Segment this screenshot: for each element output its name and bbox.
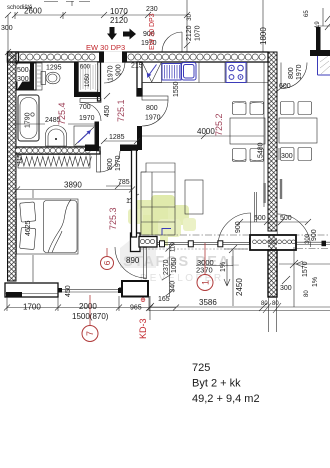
circle 6 [106, 248, 108, 256]
svg-text:500: 500 [254, 215, 266, 222]
central hatched wall [268, 52, 277, 231]
watermark house [120, 234, 156, 268]
svg-text:900: 900 [116, 64, 123, 76]
dim 4000 line [142, 133, 264, 139]
dining table [230, 118, 265, 144]
svg-text:1970: 1970 [79, 115, 95, 122]
svg-text:600: 600 [279, 83, 291, 90]
wall left end x-box [8, 52, 19, 62]
neighbor blue counter corner [318, 56, 330, 75]
svg-text:725.1: 725.1 [116, 99, 126, 122]
circle 7 [89, 295, 91, 325]
bathroom door [80, 99, 101, 103]
svg-text:900: 900 [235, 221, 242, 233]
hall dim 1285 [101, 138, 140, 144]
bedroom door leaf + swing [97, 151, 101, 172]
svg-text:965: 965 [130, 305, 142, 312]
living door leaf + swing [142, 96, 168, 100]
svg-text:80: 80 [304, 290, 310, 297]
column tails [269, 297, 277, 332]
svg-text:800: 800 [146, 105, 158, 112]
bedroom SE wall block [122, 281, 148, 297]
svg-text:600: 600 [80, 65, 91, 71]
svg-text:1790: 1790 [25, 112, 32, 128]
svg-text:725: 725 [192, 362, 210, 374]
shower [74, 126, 95, 146]
dim 4625 [32, 190, 34, 282]
dash-dot boundary living bottom [130, 234, 330, 236]
neighbor table [279, 118, 317, 143]
dim 2600 line [12, 12, 190, 19]
closet L-wall [74, 62, 101, 97]
ref line + circle 1 [204, 243, 206, 275]
hall-bedroom wall [85, 145, 99, 152]
chairs [233, 102, 264, 162]
svg-text:1050: 1050 [85, 73, 91, 87]
svg-text:6: 6 [102, 260, 112, 265]
svg-text:1550: 1550 [173, 81, 180, 97]
dim 3890 [14, 187, 135, 193]
svg-text:725.4: 725.4 [57, 102, 67, 125]
svg-text:2120: 2120 [110, 16, 128, 25]
svg-text:19: 19 [315, 21, 321, 28]
svg-text:1285: 1285 [109, 134, 125, 141]
svg-text:230: 230 [146, 6, 158, 13]
neighbor door swing top-right [281, 63, 307, 89]
top wall with insulation [8, 51, 269, 62]
svg-text:2120: 2120 [186, 25, 193, 41]
washbasin [46, 126, 67, 147]
svg-text:1295: 1295 [46, 65, 62, 72]
svg-text:KD-3: KD-3 [138, 318, 148, 339]
svg-text:4000: 4000 [197, 127, 215, 136]
svg-text:725.3: 725.3 [108, 207, 118, 230]
svg-text:300: 300 [280, 285, 292, 292]
svg-text:450: 450 [104, 105, 111, 117]
hall-kitchen wall upper [137, 62, 142, 96]
svg-text:1%: 1% [220, 262, 227, 272]
entrance door swing [104, 63, 125, 84]
svg-text:500: 500 [17, 67, 29, 74]
bed [17, 199, 79, 254]
svg-text:1970: 1970 [108, 65, 115, 81]
svg-text:2450: 2450 [235, 278, 244, 296]
svg-text:1500(870): 1500(870) [72, 312, 109, 321]
corridor door arc [162, 32, 182, 52]
watermark tree [128, 195, 196, 246]
glazing lines [157, 242, 251, 244]
svg-text:785: 785 [118, 179, 130, 186]
bedroom window [58, 288, 62, 293]
dim 300 left [5, 12, 11, 55]
shaft 500x300 [17, 63, 36, 90]
svg-text:1700: 1700 [23, 303, 41, 312]
living bottom wall w/ insulation [139, 237, 157, 248]
svg-text:700: 700 [79, 104, 91, 111]
blue corner mark living [162, 229, 171, 236]
dim 5480 line [263, 62, 265, 207]
balcony bottom slab [149, 296, 330, 311]
bathroom bottom wall [16, 147, 100, 154]
svg-text:2370: 2370 [196, 266, 213, 275]
svg-text:450: 450 [65, 285, 72, 297]
svg-text:2000: 2000 [79, 302, 97, 311]
svg-text:300: 300 [281, 153, 293, 160]
bathroom right wall lower (black) [95, 122, 100, 148]
svg-text:900: 900 [311, 229, 318, 241]
dim 500/500 [237, 219, 311, 225]
svg-text:2600: 2600 [24, 7, 42, 16]
svg-text:1070: 1070 [195, 25, 202, 41]
svg-text:Byt 2 + kk: Byt 2 + kk [192, 378, 241, 390]
svg-text:1050: 1050 [171, 257, 178, 273]
bathroom right wall upper [98, 62, 101, 101]
sofa [141, 163, 175, 235]
svg-text:300: 300 [17, 76, 29, 83]
kitchen sink unit [162, 64, 181, 81]
svg-text:890: 890 [126, 256, 140, 265]
svg-text:725.2: 725.2 [214, 113, 224, 136]
svg-text:800: 800 [288, 67, 295, 79]
svg-text:EW 30 DP3: EW 30 DP3 [86, 43, 125, 52]
svg-text:1970: 1970 [296, 64, 303, 80]
rotated dims top right [184, 0, 263, 52]
svg-text:1570: 1570 [302, 261, 309, 277]
svg-text:80: 80 [261, 301, 268, 307]
column below bar [268, 250, 277, 297]
svg-text:49,2 + 9,4 m2: 49,2 + 9,4 m2 [192, 393, 260, 405]
hall-living wall lower [137, 126, 142, 150]
entrance arrows [107, 27, 117, 40]
living bottom wall corner block [131, 233, 141, 252]
balcony label 3000/2370 [196, 265, 233, 267]
apt balcony door at column [218, 213, 251, 246]
svg-text:30: 30 [187, 13, 193, 20]
svg-text:1%: 1% [312, 277, 319, 287]
svg-text:1800: 1800 [259, 27, 268, 45]
armchair table [185, 180, 203, 214]
door frame lines [255, 192, 257, 222]
svg-text:2370: 2370 [163, 259, 170, 275]
bedroom-living wall [132, 150, 137, 237]
svg-text:7: 7 [85, 331, 95, 336]
neighbor balcony door [277, 214, 310, 247]
left exterior wall [8, 52, 17, 281]
bedroom bottom wall [5, 283, 58, 297]
duct strip [36, 63, 42, 90]
cross bar of column [250, 235, 296, 250]
threshold dashed line [141, 248, 265, 250]
KD-3 label [141, 298, 145, 302]
svg-text:215: 215 [131, 63, 143, 70]
svg-text:800: 800 [107, 158, 114, 170]
toilet [41, 72, 46, 85]
neighbor bottom wall [296, 242, 330, 244]
right top L-wall [316, 27, 321, 50]
entrance opening [104, 51, 122, 62]
balcony door 890 leaf+swing [115, 247, 146, 278]
dim 2450 [232, 250, 234, 306]
corridor top dashes [44, 1, 90, 6]
kitchen counter edge [142, 62, 268, 83]
kitchen tall cabinet [142, 62, 162, 83]
bottom dims [4, 296, 179, 320]
balcony right dims [279, 247, 330, 307]
svg-text:500: 500 [280, 215, 292, 222]
svg-text:110: 110 [171, 242, 177, 252]
svg-text:DEVELOPER: DEVELOPER [140, 273, 224, 284]
neighbor chairs [281, 102, 312, 161]
svg-text:EW 30 DP3: EW 30 DP3 [149, 13, 156, 50]
svg-text:300: 300 [1, 25, 13, 32]
svg-text:1: 1 [201, 280, 211, 285]
svg-text:1070: 1070 [110, 7, 128, 16]
svg-text:1970: 1970 [115, 155, 122, 171]
bathtub [18, 95, 39, 141]
svg-text:3890: 3890 [64, 181, 82, 190]
svg-text:65: 65 [304, 10, 310, 17]
svg-text:3586: 3586 [199, 298, 217, 307]
svg-text:165: 165 [158, 296, 170, 303]
svg-text:4625: 4625 [25, 220, 32, 236]
wardrobe [18, 155, 90, 169]
svg-text:1970: 1970 [145, 115, 161, 122]
stove [226, 63, 246, 83]
glazing posts [160, 241, 165, 247]
closet niche with hangers [79, 62, 98, 92]
